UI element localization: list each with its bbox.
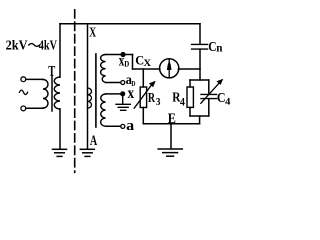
source tilde — [19, 90, 27, 94]
PT core — [95, 54, 97, 127]
svg-text:4: 4 — [225, 96, 230, 107]
wire PT primary vertical (X to A to ground) — [87, 24, 89, 149]
loop left vertical lower — [189, 107, 191, 116]
svg-text:4kV: 4kV — [39, 37, 58, 52]
ground under PT primary — [80, 149, 94, 156]
resistor R4 body — [187, 87, 193, 107]
loop left vertical upper — [189, 80, 191, 87]
svg-text:X: X — [89, 26, 96, 41]
loop right vertical upper — [208, 80, 210, 94]
wire Cn bottom to loop — [199, 49, 201, 80]
resistor R3 arrow — [134, 85, 151, 108]
svg-text:R: R — [148, 90, 155, 105]
node xD dot — [120, 52, 125, 57]
svg-text:n: n — [216, 41, 222, 55]
wire winding2 bottom lead — [106, 125, 121, 127]
svg-text:4: 4 — [180, 97, 185, 109]
label C4 — [217, 90, 231, 107]
label R4 — [172, 90, 185, 108]
wire detector to Cn branch — [178, 68, 200, 70]
wire xD to Cx corner down — [132, 55, 134, 70]
wire winding1 top lead — [106, 54, 133, 56]
label 2kV~4kV tilde glyph — [29, 44, 40, 47]
R4C4 loop top — [190, 79, 209, 81]
node x dot — [120, 91, 125, 96]
svg-text:2kV: 2kV — [6, 37, 28, 52]
loop right vertical lower — [208, 99, 210, 116]
wire source bottom to T primary — [26, 107, 43, 109]
source terminal top — [21, 77, 26, 82]
svg-text:X: X — [143, 59, 151, 69]
wire loop to E bus — [199, 116, 201, 124]
terminal a open circle — [121, 124, 125, 128]
label Cn — [208, 39, 222, 55]
detector meter circle — [160, 59, 179, 78]
wire winding1 bottom lead — [106, 82, 121, 84]
ground under T secondary — [53, 149, 67, 156]
detector needle — [168, 60, 170, 77]
transformer T core — [51, 76, 53, 112]
capacitor Cn plates — [192, 43, 208, 45]
wire T secondary down to ground — [59, 109, 61, 149]
ground under E — [158, 149, 182, 156]
capacitor C4 arrow — [201, 83, 220, 104]
resistor R3 stem top — [142, 69, 144, 87]
wire winding2 top lead — [106, 93, 121, 95]
label 2kV~4kV — [6, 37, 58, 52]
PT primary winding bumps — [88, 88, 92, 108]
ground at x terminal — [116, 96, 130, 110]
label Cx — [135, 53, 151, 69]
resistor R3 body — [140, 87, 146, 108]
svg-text:a: a — [126, 118, 134, 134]
wire Cx node to detector — [133, 68, 160, 70]
svg-text:3: 3 — [156, 97, 161, 108]
terminal aD open circle — [121, 81, 125, 85]
wire E to ground — [170, 124, 172, 149]
svg-text:D: D — [124, 59, 129, 69]
svg-text:A: A — [90, 133, 97, 149]
wire top bus — [60, 23, 200, 25]
wire E bus — [143, 123, 199, 125]
svg-text:x: x — [128, 85, 135, 102]
PT winding 1 (xD-aD) — [101, 55, 106, 83]
PT winding 2 (x-a) — [101, 94, 106, 126]
label aD — [126, 72, 136, 88]
dashed screen line — [74, 10, 76, 173]
svg-text:E: E — [168, 111, 176, 127]
transformer T primary winding — [43, 80, 48, 109]
source terminal bottom — [21, 106, 26, 111]
wire T secondary up to top bus — [59, 24, 61, 77]
wire source top to T primary — [26, 78, 43, 80]
loop bottom — [190, 115, 209, 117]
wire R3 bottom to E bus — [142, 108, 144, 124]
capacitor Cn top stem — [199, 24, 201, 45]
capacitor C4 plates — [201, 93, 217, 95]
label xD — [119, 53, 130, 70]
label R3 — [148, 90, 161, 108]
transformer T secondary winding — [54, 77, 60, 109]
